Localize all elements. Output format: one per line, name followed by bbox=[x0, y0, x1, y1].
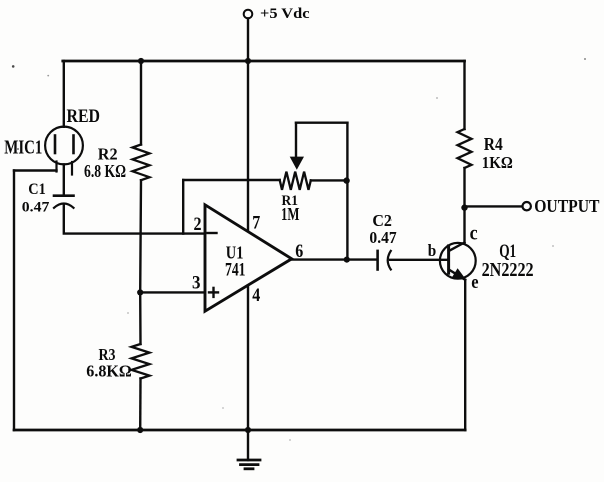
wire top supply rail bbox=[63, 60, 465, 63]
wire mic top lead bbox=[63, 61, 65, 127]
wire left branch vertical bbox=[13, 171, 15, 431]
wire to OUTPUT terminal bbox=[465, 205, 523, 207]
wire wiper loop top bbox=[296, 121, 347, 123]
node R2 R3 pin3 junction bbox=[137, 289, 143, 295]
paper speck bbox=[127, 312, 129, 314]
wire mic left pin to left branch bbox=[14, 169, 57, 171]
paper speck bbox=[47, 75, 49, 77]
wire C2 to base bbox=[390, 259, 449, 261]
svg-text:C2: C2 bbox=[372, 211, 392, 230]
node R1 right junction bbox=[343, 177, 349, 183]
node output junction bbox=[344, 257, 350, 263]
resistor R2 6.8 Kohm bbox=[84, 61, 150, 292]
svg-text:C1: C1 bbox=[28, 181, 46, 198]
wire C1 to pin 2 bbox=[64, 205, 205, 234]
capacitor C1 0.47 bbox=[22, 181, 74, 216]
resistor R1 1M bbox=[280, 172, 311, 224]
wiper arrow of R1 bbox=[290, 123, 304, 170]
svg-text:RED: RED bbox=[67, 106, 101, 127]
svg-text:R4: R4 bbox=[484, 134, 503, 154]
paper speck bbox=[12, 65, 15, 68]
svg-text:+5 Vdc: +5 Vdc bbox=[260, 6, 310, 22]
wire emitter vertical bbox=[464, 280, 466, 430]
wire mic to C1 bbox=[63, 164, 65, 195]
wire collector vertical bbox=[463, 208, 465, 243]
paper speck bbox=[552, 245, 554, 247]
svg-text:3: 3 bbox=[192, 273, 201, 294]
resistor R4 1 Kohm bbox=[458, 61, 513, 208]
svg-text:2N2222: 2N2222 bbox=[482, 259, 534, 281]
capacitor C2 0.47 bbox=[369, 211, 396, 270]
svg-text:1M: 1M bbox=[281, 204, 300, 224]
node R3 bottom rail junction bbox=[137, 427, 143, 433]
wire R1 to output net bbox=[346, 180, 348, 259]
resistor R3 6.8 Kohm bbox=[86, 292, 149, 430]
svg-text:OUTPUT: OUTPUT bbox=[534, 196, 599, 216]
wire wiper loop right vertical bbox=[346, 123, 348, 181]
wire op-amp output bbox=[292, 258, 377, 260]
microphone MIC1 bbox=[4, 106, 100, 175]
paper speck bbox=[289, 439, 291, 441]
svg-text:0.47: 0.47 bbox=[22, 200, 50, 216]
paper speck bbox=[584, 58, 586, 60]
svg-text:1KΩ: 1KΩ bbox=[482, 153, 513, 172]
svg-text:6.8 KΩ: 6.8 KΩ bbox=[84, 161, 126, 181]
node supply rail / +5V junction bbox=[245, 58, 251, 64]
wire bottom rail bbox=[14, 429, 465, 432]
wire pin 4 to ground bbox=[247, 286, 249, 460]
paper speck bbox=[390, 219, 392, 221]
wire R1 right lead bbox=[311, 179, 348, 181]
transistor Q1 2N2222 bbox=[428, 223, 534, 294]
svg-text:0.47: 0.47 bbox=[369, 228, 396, 247]
svg-text:2: 2 bbox=[194, 214, 202, 235]
wire feedback horizontal left of R1 bbox=[183, 179, 280, 181]
terminal OUTPUT bbox=[523, 202, 531, 210]
svg-text:7: 7 bbox=[252, 213, 260, 234]
svg-text:741: 741 bbox=[225, 261, 246, 281]
svg-text:c: c bbox=[470, 223, 478, 245]
wire +5V vertical to pin 7 bbox=[247, 19, 249, 232]
wire feedback tap vertical bbox=[182, 180, 184, 234]
svg-text:b: b bbox=[428, 241, 437, 260]
svg-text:U1: U1 bbox=[226, 242, 244, 262]
svg-text:4: 4 bbox=[252, 285, 260, 306]
svg-text:MIC1: MIC1 bbox=[4, 136, 42, 158]
node pin4 bottom rail junction bbox=[245, 427, 251, 433]
node supply rail / R2 junction bbox=[138, 58, 144, 64]
paper speck bbox=[17, 148, 19, 150]
paper speck bbox=[436, 97, 438, 99]
node collector output junction bbox=[461, 204, 467, 210]
paper speck bbox=[222, 407, 224, 409]
svg-text:e: e bbox=[471, 272, 478, 293]
terminal +5 Vdc bbox=[244, 10, 253, 19]
svg-text:6.8KΩ: 6.8KΩ bbox=[86, 362, 132, 381]
ground bbox=[238, 460, 260, 469]
op-amp U1 741 bbox=[192, 205, 303, 311]
wire pin 3 bbox=[140, 291, 205, 293]
